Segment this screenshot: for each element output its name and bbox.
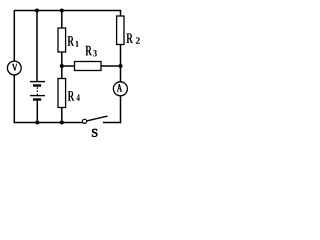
switch S pivot [82,119,86,123]
resistor R3 [75,62,102,71]
ammeter A1 [113,82,127,96]
cell 2 long plate [30,95,45,97]
battery B1 (two cells) [30,82,45,100]
node: R4 bottom junction [60,121,64,125]
cell 1 long plate [30,81,45,83]
wire: R1 bottom lead [61,52,63,66]
label R2 [126,33,139,43]
label S [92,129,97,137]
wire: R3 right lead [101,65,121,67]
wire: ammeter down to bottom-right corner [120,96,122,123]
node: battery bottom junction [35,121,39,125]
wire: battery branch upper [36,11,38,82]
resistor R1 [58,28,66,52]
wire: bottom horizontal right segment (switch fixed side) [103,122,121,124]
wire: left vertical below voltmeter [13,75,15,123]
resistor R4 [58,79,66,108]
wire: R4 top lead [61,66,63,79]
node: battery top junction [35,9,39,13]
wire: left vertical above voltmeter [13,11,15,62]
wire: bottom horizontal left segment [14,122,83,124]
wire: R2 bottom lead [120,45,122,67]
label R1 [67,36,78,46]
switch S blade [87,116,108,121]
dotted link between cells [36,87,38,95]
cell 1 short thick plate [33,84,41,86]
wire: R4 bottom lead [61,108,63,123]
cell 2 short thick plate [33,98,41,100]
label R3 [85,46,96,57]
resistor R2 [117,16,124,45]
node: right junction (R3 meets R2/A branch) [119,64,123,68]
wire: R1 top lead [61,11,63,29]
wire: junction down to ammeter [120,66,122,82]
node: R1 top junction [60,9,64,13]
wire: battery branch lower [36,101,38,123]
node: middle-left junction [60,64,64,68]
wire: R3 left lead [62,65,75,67]
voltmeter V1 [7,61,21,75]
wire: top-right corner down to R2 [120,10,122,16]
label R4 [68,91,80,101]
wire: top horizontal [14,10,121,12]
